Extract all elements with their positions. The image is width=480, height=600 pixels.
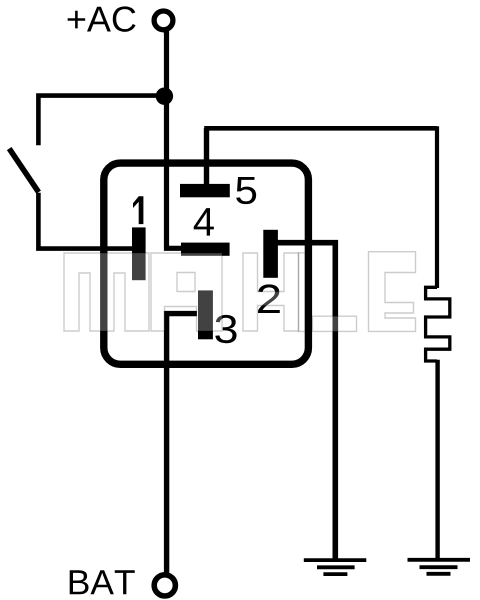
pin 3 blade bbox=[198, 290, 213, 339]
resistor R1 meander bbox=[426, 287, 450, 361]
wire right drop bbox=[435, 126, 439, 288]
ground GND2 (resistor branch) bbox=[408, 560, 471, 574]
junction dot bbox=[156, 88, 173, 105]
pin label 3 bbox=[215, 315, 236, 343]
switch blade S1 bbox=[9, 149, 38, 193]
pin label 1 bbox=[133, 196, 143, 224]
watermark letter A bbox=[151, 253, 222, 331]
terminal +AC bbox=[154, 11, 173, 30]
pin 2 blade bbox=[263, 230, 278, 278]
node +AC label bbox=[68, 6, 136, 31]
wire pin 2 to ground bbox=[277, 243, 336, 559]
pin label 5 bbox=[236, 177, 256, 204]
wire +AC down to pin 4 bbox=[167, 30, 183, 249]
watermark letter H bbox=[243, 253, 299, 331]
wire switch to pin 1 bbox=[38, 193, 133, 249]
watermark letter E bbox=[369, 252, 416, 332]
watermark letter L bbox=[299, 253, 357, 332]
watermark letter M bbox=[64, 253, 149, 331]
relay body K1 bbox=[104, 163, 309, 364]
pin 5 blade bbox=[180, 184, 230, 197]
node BAT label bbox=[70, 570, 135, 594]
pin label 2 bbox=[258, 284, 280, 313]
pin 4 blade bbox=[181, 243, 230, 256]
ground GND1 (pin2 branch) bbox=[304, 560, 367, 574]
watermark MAHLE bbox=[64, 252, 416, 332]
wire pin 5 riser bbox=[204, 128, 209, 186]
pin label 4 bbox=[194, 208, 214, 236]
terminal BAT circle bbox=[154, 575, 175, 596]
wire resistor to ground bbox=[435, 360, 439, 559]
wire junction to switch bbox=[38, 96, 165, 146]
wire top to resistor bbox=[204, 126, 436, 131]
pin 1 blade bbox=[132, 227, 146, 280]
wire BAT to pin 3 bbox=[167, 314, 197, 573]
